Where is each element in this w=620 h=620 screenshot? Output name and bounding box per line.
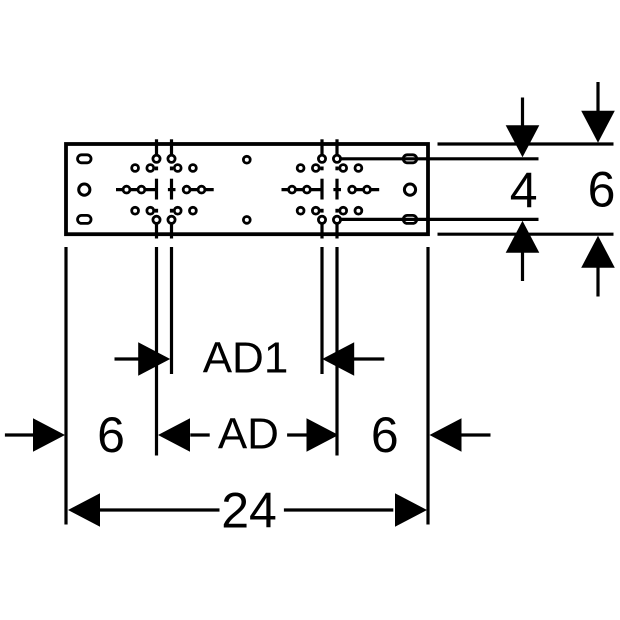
cluster 1 axis left centreline through bottom hole bbox=[155, 219, 158, 239]
cluster 2 lower row hole at +14 bbox=[340, 207, 347, 214]
cluster 1 lower row hole at +14 bbox=[174, 207, 181, 214]
screw hole middle-right bbox=[404, 184, 415, 195]
cluster 2 hole on right axis bottom bbox=[333, 216, 340, 223]
cluster 2 axis right centreline above/into top hole bbox=[335, 139, 338, 160]
dim 6 height lower arrowhead bbox=[581, 236, 615, 268]
extension line top hole row right bbox=[339, 157, 539, 160]
cluster 2 hole on left axis top bbox=[318, 155, 325, 162]
dim 4 lower arrowhead bbox=[506, 221, 540, 253]
dim AD1 right leader line bbox=[353, 357, 384, 360]
dim AD left arrowhead bbox=[158, 418, 190, 452]
cluster 1 upper row hole at +29 bbox=[190, 165, 197, 172]
cluster 1 horizontal centreline centre dash bbox=[168, 188, 176, 191]
dim 6 height upper leader line bbox=[596, 82, 599, 112]
cluster 1 horizontal centreline left dash bbox=[116, 188, 158, 191]
dim AD1 left leader line bbox=[115, 357, 142, 360]
cluster 2 axis left centre tick bbox=[320, 179, 323, 200]
dim 24 left arrowhead bbox=[68, 493, 100, 527]
slot hole top-left bbox=[78, 155, 92, 163]
svg-text:6: 6 bbox=[371, 407, 399, 463]
cluster 2 lower row hole at +29 bbox=[355, 207, 362, 214]
cluster 2 upper row hole at -14 bbox=[312, 165, 319, 172]
cluster 1 axis left centreline short dash upper bbox=[155, 167, 158, 171]
cluster 1 hole on right axis bottom bbox=[168, 216, 175, 223]
dim AD right arrowhead bbox=[307, 418, 339, 452]
extension line plate right edge bbox=[426, 247, 429, 525]
cluster 1 lower row hole at -29 bbox=[132, 207, 139, 214]
dim 24 right leader line bbox=[284, 508, 393, 511]
svg-text:4: 4 bbox=[510, 163, 538, 219]
cluster 1 axis right centreline through bottom hole bbox=[170, 219, 173, 239]
cluster 2 lower row hole at -14 bbox=[312, 207, 319, 214]
cluster 1 middle row hole at -23 bbox=[138, 186, 145, 193]
cluster 1 lower row hole at +29 bbox=[190, 207, 197, 214]
cluster 2 middle row hole at +38 bbox=[364, 186, 371, 193]
cluster 2 axis left centreline above/into top hole bbox=[320, 139, 323, 160]
cluster 1 axis left centreline above/into top hole bbox=[155, 139, 158, 160]
extension line plate bottom edge right bbox=[438, 233, 614, 236]
cluster 2 middle row hole at -23 bbox=[304, 186, 311, 193]
cluster 2 axis left centreline through bottom hole bbox=[320, 219, 323, 239]
cluster 1 hole on left axis top bbox=[153, 155, 160, 162]
slot hole bottom-left bbox=[78, 215, 92, 223]
small hole bottom-centre bbox=[243, 217, 250, 224]
cluster 2 axis right centreline short dash lower bbox=[335, 209, 338, 213]
dim 6 height lower leader line bbox=[596, 268, 599, 297]
cluster 1 upper row hole at -29 bbox=[132, 165, 139, 172]
cluster 2 upper row hole at -29 bbox=[297, 165, 304, 172]
cluster 2 axis left centreline short dash upper bbox=[320, 167, 323, 171]
extension line axis B bbox=[170, 247, 173, 374]
svg-text:AD: AD bbox=[218, 410, 279, 459]
extension line axis A bbox=[155, 247, 158, 456]
cluster 1 hole on left axis bottom bbox=[153, 216, 160, 223]
dim 6 left outer arrowhead bbox=[33, 418, 65, 452]
dim AD1 right arrowhead bbox=[322, 342, 354, 376]
cluster 2 horizontal centreline left dash bbox=[282, 188, 324, 191]
cluster 2 horizontal centreline centre dash bbox=[333, 188, 341, 191]
cluster 2 lower row hole at -29 bbox=[297, 207, 304, 214]
cluster 1 lower row hole at -14 bbox=[147, 207, 154, 214]
dim 4 upper leader line bbox=[521, 98, 524, 129]
dim 4 upper arrowhead bbox=[506, 125, 540, 157]
dim 4 lower leader line bbox=[521, 252, 524, 282]
extension line bottom hole row right bbox=[339, 218, 539, 221]
cluster 2 hole on left axis bottom bbox=[318, 216, 325, 223]
cluster 2 middle row hole at -38 bbox=[289, 186, 296, 193]
cluster 1 hole on right axis top bbox=[168, 155, 175, 162]
cluster 1 middle row hole at +23 bbox=[183, 186, 190, 193]
small hole top-centre bbox=[243, 156, 250, 163]
slot hole top-right bbox=[403, 155, 417, 163]
svg-text:24: 24 bbox=[221, 483, 277, 539]
cluster 1 axis right centre tick bbox=[170, 179, 173, 200]
cluster 1 upper row hole at -14 bbox=[147, 165, 154, 172]
slot hole bottom-right bbox=[403, 215, 417, 223]
dim 6 left outer leader line bbox=[5, 433, 34, 436]
cluster 2 hole on right axis top bbox=[333, 155, 340, 162]
cluster 1 axis right centreline short dash lower bbox=[170, 209, 173, 213]
svg-text:6: 6 bbox=[588, 162, 616, 218]
cluster 2 axis right centreline short dash upper bbox=[335, 167, 338, 171]
cluster 2 axis left centreline short dash lower bbox=[320, 209, 323, 213]
cluster 2 horizontal centreline right dash bbox=[348, 188, 379, 191]
cluster 2 axis right centreline through bottom hole bbox=[335, 219, 338, 239]
dim 24 right arrowhead bbox=[395, 493, 427, 527]
extension line plate left edge bbox=[64, 247, 67, 525]
cluster 1 upper row hole at +14 bbox=[174, 165, 181, 172]
dim 6 right outer arrowhead bbox=[430, 418, 462, 452]
dim AD left leader line bbox=[190, 433, 209, 436]
cluster 1 axis left centreline short dash lower bbox=[155, 209, 158, 213]
cluster 1 axis right centreline short dash upper bbox=[170, 167, 173, 171]
cluster 2 middle row hole at +23 bbox=[349, 186, 356, 193]
dim AD1 left arrowhead bbox=[138, 342, 170, 376]
cluster 1 middle row hole at -38 bbox=[123, 186, 130, 193]
svg-text:AD1: AD1 bbox=[203, 334, 289, 383]
cluster 1 horizontal centreline right dash bbox=[182, 188, 213, 191]
extension line axis D bbox=[335, 247, 338, 456]
mounting plate outline bbox=[66, 144, 428, 234]
cluster 1 axis right centreline above/into top hole bbox=[170, 139, 173, 160]
dim 6 height upper arrowhead bbox=[581, 111, 615, 143]
extension line plate top edge right bbox=[438, 142, 614, 145]
dim 6 right outer leader line bbox=[460, 433, 491, 436]
cluster 2 axis right centre tick bbox=[335, 179, 338, 200]
screw hole middle-left bbox=[79, 184, 90, 195]
svg-text:6: 6 bbox=[97, 407, 125, 463]
dim AD right leader line bbox=[287, 433, 308, 436]
dim 24 left leader line bbox=[99, 508, 220, 511]
cluster 1 axis left centre tick bbox=[155, 179, 158, 200]
extension line axis C bbox=[320, 247, 323, 374]
cluster 2 upper row hole at +29 bbox=[355, 165, 362, 172]
cluster 1 middle row hole at +38 bbox=[198, 186, 205, 193]
cluster 2 upper row hole at +14 bbox=[340, 165, 347, 172]
